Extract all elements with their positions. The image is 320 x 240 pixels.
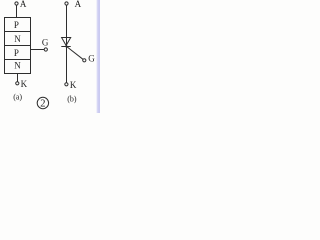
svg-text:(a): (a) [13, 93, 22, 102]
junction dot at gate takeoff [65, 45, 67, 47]
svg-text:(b): (b) [67, 95, 77, 104]
svg-text:2: 2 [40, 99, 45, 110]
junction J1 divider [5, 31, 31, 33]
junction J3 divider [5, 59, 31, 61]
junction J2 divider [5, 45, 31, 47]
terminal A (a) [15, 2, 18, 5]
wire gate lead (a) [31, 49, 45, 51]
margin rule (page edge) [96, 0, 100, 113]
terminal K (b) [65, 83, 68, 86]
terminal G (b) [83, 59, 86, 62]
PNPN stack outline [5, 18, 31, 74]
terminal K (a) [16, 82, 19, 85]
svg-text:K: K [21, 79, 28, 89]
svg-text:A: A [75, 0, 82, 9]
svg-text:G: G [88, 54, 95, 64]
wire gate lead (b) [67, 47, 83, 60]
svg-text:N: N [14, 34, 21, 44]
wire cathode lead (a) [17, 74, 19, 82]
svg-text:N: N [14, 60, 21, 70]
wire anode lead (a) [16, 5, 18, 18]
wire cathode lead (b) [66, 47, 68, 83]
svg-text:G: G [42, 38, 49, 48]
svg-text:K: K [70, 80, 77, 90]
terminal A (b) [65, 2, 68, 5]
svg-text:P: P [14, 20, 19, 30]
svg-text:P: P [14, 48, 19, 58]
cathode bar [61, 46, 70, 48]
terminal G (a) [44, 48, 47, 51]
wire anode lead (b) [66, 5, 68, 46]
svg-text:A: A [20, 0, 27, 9]
thyristor triangle [62, 38, 71, 46]
item number circle 2 [37, 97, 48, 108]
